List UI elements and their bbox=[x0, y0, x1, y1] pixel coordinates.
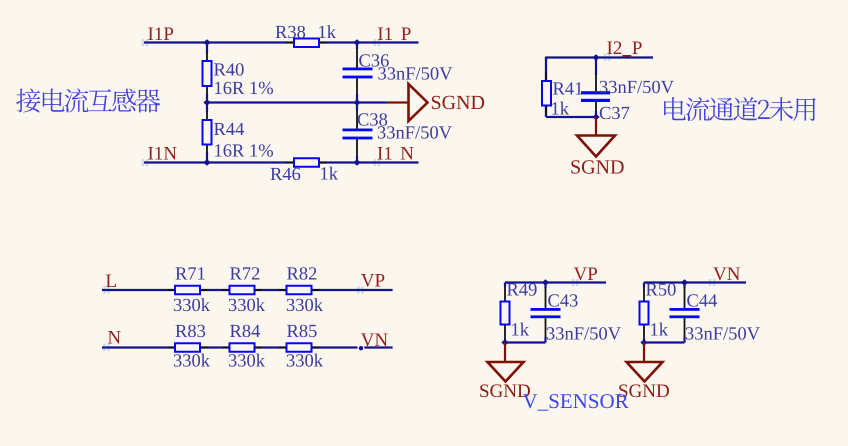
value 1k of R41 bbox=[552, 102, 569, 115]
junction C37 / SGND bbox=[592, 114, 599, 120]
net label I1_P bbox=[378, 27, 392, 40]
wire left vertical to R41 bbox=[545, 57, 547, 118]
label R49 bbox=[507, 283, 537, 295]
value 330k of R84 bbox=[229, 354, 265, 367]
resistor R83 bbox=[168, 343, 208, 352]
value 33nF/50V of C38 bbox=[378, 126, 452, 139]
resistor R41 bbox=[542, 72, 551, 113]
hotspot markers (pale) bbox=[103, 39, 715, 351]
junction C36 / C38 / middle wire bbox=[353, 99, 360, 105]
label C36 bbox=[359, 54, 389, 66]
capacitor C36 bbox=[343, 43, 373, 103]
net label VN bbox=[361, 334, 388, 347]
label R83 bbox=[176, 325, 206, 337]
value 330k of R82 bbox=[287, 298, 323, 311]
junction R50 / SGND bbox=[640, 339, 647, 345]
resistor R82 bbox=[279, 286, 319, 295]
capacitor C38 bbox=[343, 103, 373, 163]
junction I2_P / C37 bbox=[592, 54, 599, 60]
label R82 bbox=[287, 267, 316, 279]
value 330k of R85 bbox=[287, 354, 323, 367]
wire middle node to SGND bbox=[207, 101, 387, 103]
junction R49 / SGND bbox=[501, 339, 508, 345]
resistor R71 bbox=[168, 286, 208, 295]
power port SGND (down arrow) bbox=[627, 362, 663, 382]
label R50 bbox=[646, 283, 676, 295]
label R46 bbox=[271, 168, 301, 180]
power port SGND (down arrow) bbox=[488, 362, 524, 382]
value 330k of R72 bbox=[229, 298, 265, 311]
label SGND bbox=[571, 160, 623, 173]
value 1k of R38 bbox=[319, 25, 336, 38]
label R41 bbox=[553, 82, 582, 94]
junction VN / C44 bbox=[681, 279, 688, 285]
net label I2_P bbox=[607, 41, 641, 54]
junction top wire / C36 bbox=[353, 39, 360, 45]
label R72 bbox=[230, 267, 259, 279]
wire net I2_P top bbox=[546, 56, 653, 58]
value 330k of R83 bbox=[174, 354, 210, 367]
wire net VP bbox=[505, 281, 606, 283]
value 33nF/50V of C36 bbox=[378, 67, 452, 80]
resistor R50 bbox=[640, 283, 649, 343]
net label I1P bbox=[148, 27, 173, 40]
capacitor C37 bbox=[581, 58, 610, 117]
junction R40 / R44 / middle wire bbox=[203, 99, 210, 105]
wire stub dot on net N bbox=[359, 346, 363, 350]
wire net N (left segment) bbox=[102, 346, 358, 348]
wire SGND stub (red) bbox=[643, 343, 645, 363]
value 1k of R49 bbox=[512, 323, 529, 336]
junction bottom wire / C38 bbox=[353, 159, 360, 165]
value 1k of R50 bbox=[651, 323, 668, 336]
wire SGND stub (red) bbox=[387, 101, 408, 103]
power port SGND (down arrow) bbox=[577, 136, 615, 157]
wire net N (right segment) bbox=[364, 346, 392, 348]
net label N bbox=[108, 331, 121, 343]
value 330k of R71 bbox=[174, 298, 210, 311]
wire bottom R41 to C37 bbox=[546, 116, 596, 118]
capacitor C43 bbox=[531, 283, 561, 343]
annotation text 接电流互感器 bbox=[16, 88, 160, 112]
resistor R49 bbox=[501, 283, 510, 343]
value 33nF/50V of C37 bbox=[600, 81, 674, 94]
wire net I1P top bbox=[144, 41, 419, 43]
label C44 bbox=[687, 294, 717, 306]
resistor R85 bbox=[279, 343, 319, 352]
label SGND bbox=[432, 96, 484, 109]
wire bottom R50 to C44 bbox=[644, 341, 685, 343]
net label VP (filter) bbox=[574, 268, 597, 281]
resistor R72 bbox=[222, 286, 262, 295]
net label I1_N bbox=[378, 147, 392, 160]
label R71 bbox=[176, 267, 205, 279]
resistor R40 bbox=[203, 43, 212, 94]
junction bottom wire / R44 bbox=[203, 159, 210, 165]
value 16R 1% of R44 bbox=[215, 144, 273, 157]
label R40 bbox=[214, 63, 244, 75]
label R84 bbox=[230, 325, 260, 337]
wire SGND stub (red) bbox=[595, 117, 597, 136]
annotation text 电流通道2未用 bbox=[664, 97, 816, 121]
resistor R44 bbox=[203, 94, 212, 163]
junction I1P / R40 bbox=[203, 39, 210, 45]
wire bottom R49 to C43 bbox=[505, 341, 546, 343]
wire SGND stub (red) bbox=[504, 343, 506, 363]
resistor R46 bbox=[286, 158, 327, 167]
wire net I1N bottom bbox=[144, 161, 419, 163]
value 16R 1% of R40 bbox=[215, 82, 273, 95]
label SGND bbox=[619, 384, 669, 397]
value 33nF/50V of C43 bbox=[547, 327, 621, 340]
wire net L bbox=[102, 289, 393, 291]
underscore of net label I2_P bbox=[622, 55, 631, 57]
net label VP bbox=[361, 274, 384, 287]
junction VP / C43 bbox=[542, 279, 549, 285]
value 1k of R46 bbox=[321, 167, 338, 180]
net label VN (filter) bbox=[713, 268, 740, 281]
label C43 bbox=[548, 294, 577, 306]
net label V_SENSOR bbox=[523, 394, 629, 411]
label C38 bbox=[358, 113, 387, 125]
label SGND bbox=[480, 384, 530, 397]
wire net VN bbox=[644, 281, 746, 283]
resistor R84 bbox=[222, 343, 262, 352]
capacitor C44 bbox=[670, 283, 700, 343]
label C37 bbox=[600, 107, 630, 119]
resistor R38 bbox=[286, 39, 327, 48]
value 33nF/50V of C44 bbox=[686, 327, 760, 340]
net label I1N bbox=[148, 147, 176, 160]
net label L bbox=[106, 275, 116, 287]
label R44 bbox=[214, 123, 244, 135]
label R85 bbox=[287, 325, 317, 337]
power port SGND (right arrow) bbox=[409, 84, 428, 121]
label R38 bbox=[276, 26, 306, 38]
